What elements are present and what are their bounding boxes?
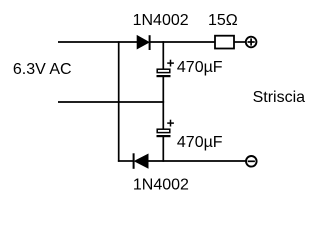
wire vertical AC branch (node A down to bottom rail) (118, 41, 120, 162)
plus polarity mark C1 (167, 60, 174, 67)
resistor R1 15 ohm (215, 36, 234, 49)
diode D1 (1N4002, pointing right) (137, 35, 150, 50)
wire resistor to plus terminal (234, 41, 246, 43)
wire middle rail (AC bottom to capacitor midpoint) (58, 101, 164, 103)
capacitor C2 470uF (polarized) (157, 129, 171, 136)
wire C2 to bottom rail (162, 136, 164, 162)
svg-text:1N4002: 1N4002 (133, 177, 189, 194)
wire bottom rail right (D2 anode to minus terminal) (148, 160, 246, 162)
wire top rail to C1 (162, 41, 164, 69)
svg-text:470µF: 470µF (177, 134, 223, 151)
svg-text:470µF: 470µF (177, 59, 223, 76)
diode D2 (1N4002, pointing left) (134, 153, 149, 169)
terminal minus output (246, 156, 257, 167)
wire top rail left (AC top to D1 anode) (58, 41, 138, 43)
wire C1 to middle rail and C2 (162, 76, 164, 129)
terminal plus output (246, 37, 257, 48)
svg-text:15Ω: 15Ω (208, 12, 238, 29)
plus polarity mark C2 (167, 120, 174, 127)
capacitor C1 470uF (polarized) (157, 69, 171, 76)
svg-text:Striscia: Striscia (253, 89, 306, 106)
wire bottom rail left (node A to D2 cathode) (118, 160, 134, 162)
svg-text:1N4002: 1N4002 (133, 12, 189, 29)
wire top rail right (D1 cathode to resistor) (150, 41, 215, 43)
svg-text:6.3V AC: 6.3V AC (13, 61, 72, 78)
